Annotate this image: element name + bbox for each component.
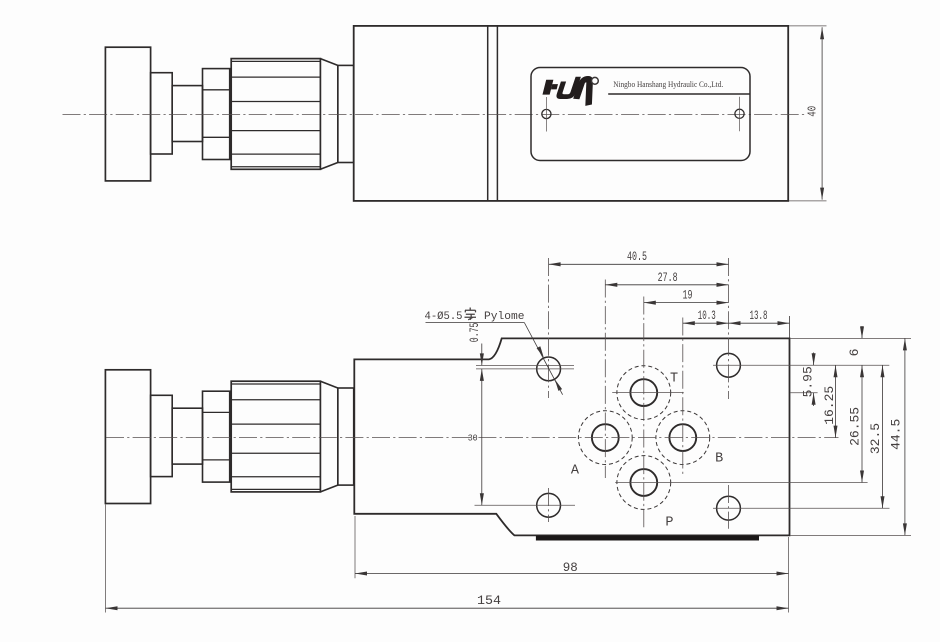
svg-text:26.55: 26.55 <box>847 407 862 446</box>
svg-text:98: 98 <box>563 560 578 575</box>
svg-text:4-Ø5.5: 4-Ø5.5 <box>425 311 463 323</box>
svg-text:6: 6 <box>847 349 862 357</box>
svg-text:40.5: 40.5 <box>627 249 647 264</box>
svg-text:5.95: 5.95 <box>800 366 815 397</box>
svg-text:10.3: 10.3 <box>698 308 716 323</box>
svg-text:A: A <box>571 464 580 479</box>
svg-text:B: B <box>715 452 723 467</box>
svg-text:16.25: 16.25 <box>822 386 837 425</box>
svg-text:13.8: 13.8 <box>750 308 768 323</box>
svg-text:40: 40 <box>806 106 819 117</box>
svg-text:Pylome: Pylome <box>484 311 525 323</box>
svg-text:27.8: 27.8 <box>658 270 678 285</box>
svg-text:154: 154 <box>477 593 501 608</box>
svg-text:44.5: 44.5 <box>889 419 904 450</box>
svg-text:32.5: 32.5 <box>868 423 883 454</box>
svg-text:19: 19 <box>683 288 693 303</box>
svg-text:T: T <box>670 372 678 387</box>
svg-text:30: 30 <box>468 433 478 444</box>
svg-text:0.75: 0.75 <box>467 323 482 343</box>
svg-text:Ningbo Hanshang Hydraulic Co.,: Ningbo Hanshang Hydraulic Co.,Ltd. <box>613 80 723 89</box>
svg-text:P: P <box>665 516 673 531</box>
